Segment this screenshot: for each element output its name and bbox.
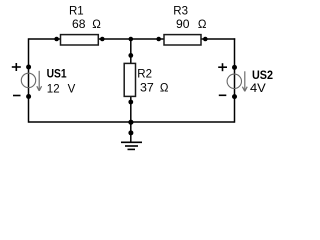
svg-text:68: 68 — [72, 19, 86, 31]
wire middle vertical upper (node to R2) — [130, 39, 132, 65]
node R2 bottom — [128, 100, 133, 105]
resistor R3 — [164, 35, 201, 45]
ground — [121, 142, 142, 149]
voltage source US1 circle — [21, 73, 35, 87]
node US1 minus terminal — [26, 94, 31, 99]
node US2 plus terminal — [232, 65, 237, 70]
wire bottom horizontal — [29, 121, 235, 123]
wire top left horizontal — [29, 38, 63, 40]
svg-text:12: 12 — [47, 84, 60, 96]
voltage source US2 circle — [227, 74, 241, 88]
wire left vertical branch — [28, 38, 30, 122]
wire ground stem — [130, 122, 132, 142]
svg-text:37: 37 — [140, 83, 154, 95]
svg-text:R1: R1 — [69, 5, 84, 17]
wire R3 to right corner horizontal — [200, 38, 235, 40]
svg-text:US2: US2 — [252, 70, 273, 82]
node R1 left — [54, 37, 59, 42]
svg-text:V: V — [68, 84, 76, 96]
node US1 plus terminal — [26, 65, 31, 70]
svg-text:90: 90 — [176, 19, 190, 31]
node ground pin — [128, 130, 133, 135]
node R3 right — [203, 37, 208, 42]
voltage source US1 arrow — [37, 71, 42, 91]
svg-text:US1: US1 — [47, 69, 68, 81]
US2 minus sign — [219, 94, 227, 96]
wire middle vertical lower (R2 to bottom node) — [130, 95, 132, 122]
svg-text:R2: R2 — [137, 69, 152, 81]
svg-text:Ω: Ω — [160, 83, 169, 95]
node R2 top — [128, 53, 133, 58]
wire right vertical branch — [234, 38, 236, 122]
node US2 minus terminal — [232, 94, 237, 99]
svg-text:Ω: Ω — [198, 19, 207, 31]
node R1 right — [100, 37, 105, 42]
node bottom junction — [128, 120, 133, 125]
wire R1 to R3 horizontal — [97, 38, 165, 40]
US1 plus sign — [12, 63, 21, 71]
svg-text:4V: 4V — [250, 83, 266, 95]
US1 minus sign — [13, 95, 21, 97]
US2 plus sign — [218, 63, 227, 71]
resistor R2 — [124, 63, 135, 96]
node R3 left — [156, 37, 161, 42]
voltage source US2 arrow — [242, 71, 247, 91]
svg-text:Ω: Ω — [92, 19, 101, 31]
resistor R1 — [61, 35, 99, 45]
node top T junction — [129, 37, 134, 42]
svg-text:R3: R3 — [173, 5, 188, 17]
